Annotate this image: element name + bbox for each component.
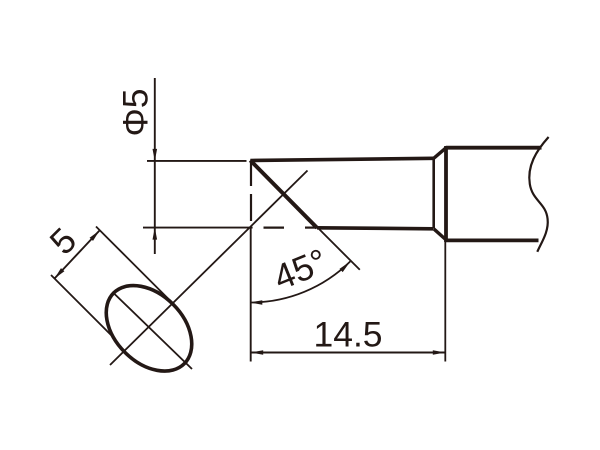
svg-text:Φ5: Φ5 <box>116 88 156 136</box>
svg-text:14.5: 14.5 <box>313 315 382 355</box>
